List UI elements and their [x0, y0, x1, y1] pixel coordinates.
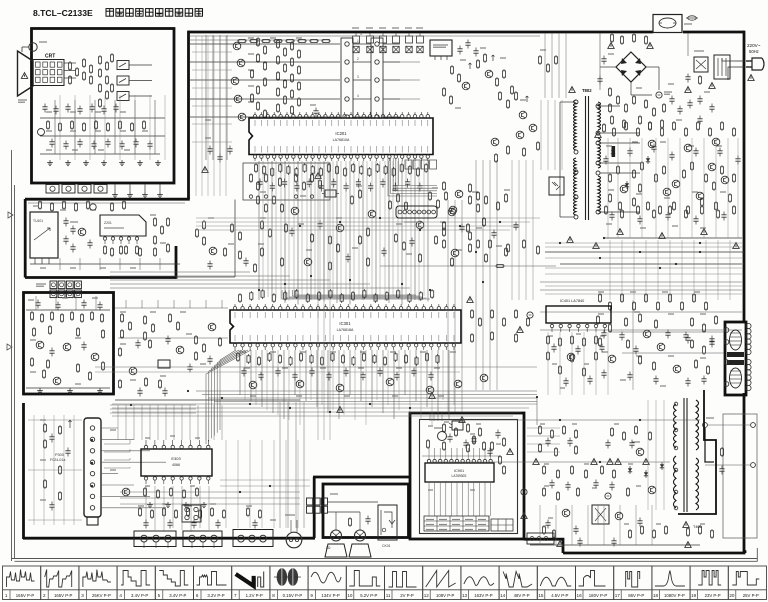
svg-text:165V P-P: 165V P-P	[54, 593, 73, 598]
misc warn triangles	[202, 167, 208, 173]
svg-text:7: 7	[234, 593, 237, 598]
power block step	[524, 539, 563, 553]
svg-text:2: 2	[357, 57, 359, 61]
waveform cell 11	[385, 566, 423, 600]
yoke coil upper	[730, 330, 742, 350]
svg-text:165V P-P: 165V P-P	[16, 593, 35, 598]
IC301 big IC body	[230, 310, 461, 343]
primary labels	[608, 53, 614, 55]
waveform cell 6	[194, 566, 232, 600]
F024 left components	[43, 423, 46, 433]
secondary rectifier diodes	[611, 148, 615, 156]
extra verticals power mid	[609, 240, 611, 300]
focus pack thin box	[723, 414, 757, 538]
tuner thin extension box	[234, 200, 236, 278]
vertical block mesh	[547, 332, 549, 395]
secondary rails	[604, 237, 742, 239]
left mid labels	[120, 311, 126, 313]
svg-text:15: 15	[538, 593, 544, 598]
RGB vertical link wires	[205, 35, 207, 160]
speaker block top spur	[313, 476, 409, 479]
power block ecaps	[521, 489, 527, 495]
IF module pins	[103, 237, 106, 240]
crt block lower resistor row	[46, 120, 49, 130]
long horizontal y367	[95, 366, 537, 368]
svg-text:11: 11	[386, 593, 391, 598]
extra long verticals right center	[511, 160, 513, 300]
flyback transformer T402 outline	[678, 390, 716, 514]
svg-text:IC201: IC201	[335, 131, 347, 136]
speaker connector grid	[307, 498, 313, 505]
power block diodes	[628, 466, 632, 474]
line filter transformer	[714, 55, 730, 79]
tuner agc pot	[90, 204, 96, 210]
regulation transistors lower	[643, 330, 651, 338]
RGB wires to connector	[190, 43, 340, 45]
fuse FS01 on crt frame	[29, 43, 37, 51]
bottom mid mesh	[220, 479, 310, 481]
flyback core	[683, 398, 685, 512]
extra horizontal center bus y218-232	[196, 217, 540, 219]
left mid wires	[115, 307, 228, 309]
speaker block frame	[323, 484, 409, 538]
IC201 pin name ticks	[254, 120, 256, 126]
mid bus corner arcs	[282, 290, 430, 299]
RGB driver emitter resistors	[256, 37, 259, 47]
flyback area verticals	[647, 400, 649, 510]
svg-text:23V P-P: 23V P-P	[705, 593, 721, 598]
wire mesh left of IC301	[117, 405, 119, 440]
svg-text:5: 5	[158, 593, 161, 598]
rgb area labels	[248, 37, 254, 39]
power block resistors	[442, 423, 445, 433]
svg-text:48V P-P: 48V P-P	[514, 593, 530, 598]
svg-text:CRT: CRT	[45, 54, 55, 60]
mains fuse box on top border	[653, 15, 682, 33]
page border bottom double lines	[12, 558, 758, 560]
left mid resistors	[120, 313, 123, 323]
IC301 bottom pins	[233, 344, 236, 347]
yoke coil lower	[730, 368, 742, 388]
audio block gnd	[37, 388, 43, 394]
E303 bottom pins	[144, 477, 147, 480]
power block caps	[447, 434, 452, 443]
speaker Y602 right	[355, 530, 366, 541]
connector P603	[233, 530, 273, 547]
IC301 bus corners left	[220, 350, 236, 430]
tuner area wiring	[28, 202, 185, 204]
svg-text:1: 1	[5, 593, 8, 598]
right of IC301 parts	[470, 309, 473, 319]
tuner area resistors	[38, 200, 41, 210]
svg-text:4.5V P-P: 4.5V P-P	[551, 593, 568, 598]
T802 primary winding	[574, 100, 577, 150]
B3 interior horizontals	[28, 419, 82, 421]
cpu block small parts	[426, 439, 429, 449]
crt block lower cap row	[49, 139, 54, 148]
secondary resistors	[608, 173, 611, 183]
AV area transistors	[455, 190, 463, 198]
speaker block wires	[328, 501, 378, 503]
top mid labels	[460, 59, 466, 61]
delay line DL101	[430, 40, 452, 56]
left lower block edge	[22, 403, 25, 539]
connector P601	[134, 531, 176, 547]
waveform cell 12	[423, 566, 461, 600]
svg-text:Z201: Z201	[104, 221, 112, 225]
flyback primary coil	[674, 404, 677, 448]
rgb area caps	[207, 146, 212, 155]
connector link wires	[353, 43, 371, 45]
svg-text:4066: 4066	[172, 463, 180, 467]
IC401 pins	[550, 324, 553, 327]
wires to yoke	[610, 331, 724, 333]
svg-text:13: 13	[462, 593, 468, 598]
regulation labels lower	[598, 291, 604, 293]
P500 connector on left frame	[182, 505, 201, 522]
degauss connector P901	[286, 532, 302, 548]
F024 wires right	[101, 427, 118, 429]
under-IC201 resistor row	[254, 163, 257, 173]
svg-text:1.2V P-P: 1.2V P-P	[246, 593, 263, 598]
vertical labels	[548, 335, 553, 337]
svg-text:8.TCL–C2133E: 8.TCL–C2133E	[33, 8, 93, 18]
cpu side cells	[491, 519, 513, 531]
svg-text:25V P-P: 25V P-P	[743, 593, 759, 598]
regulation caps lower	[601, 330, 606, 339]
flyback hv cap	[719, 466, 724, 475]
connector column CN201a	[341, 38, 353, 124]
secondary caps	[603, 156, 608, 165]
black bar diode	[612, 146, 616, 157]
secondary transistors	[620, 185, 628, 193]
svg-text:134V P-P: 134V P-P	[321, 593, 340, 598]
cpu labels	[428, 425, 433, 427]
T802 frame wires	[560, 101, 574, 103]
top mid resistors	[450, 65, 453, 75]
yoke connector bars	[727, 352, 744, 357]
yoke box left edge pin circles	[724, 328, 729, 333]
misc junction dots	[258, 289, 260, 291]
main frame left edge	[187, 31, 190, 199]
under-IC201 cap row	[257, 179, 262, 188]
E303 labels	[145, 437, 150, 439]
cpu block inner frame	[420, 420, 518, 534]
tuner block right stub	[175, 246, 178, 279]
waveform cell 2	[41, 566, 79, 600]
power block transistors	[562, 509, 570, 517]
svg-text:5.2V P-P: 5.2V P-P	[360, 593, 377, 598]
IF module E101	[100, 215, 146, 236]
connector P602	[183, 531, 222, 547]
waveform cell 17	[614, 566, 652, 600]
svg-text:T802: T802	[582, 88, 592, 93]
svg-text:0.15V P-P: 0.15V P-P	[283, 593, 303, 598]
svg-text:3.4V P-P: 3.4V P-P	[169, 593, 186, 598]
power vertical wires	[539, 505, 541, 545]
mid region caps	[289, 228, 294, 237]
svg-text:IC901: IC901	[454, 469, 464, 473]
cpu to power wires	[527, 427, 560, 429]
cpu ic901 body	[425, 463, 494, 482]
title chinese glyph blocks	[106, 9, 113, 17]
IC301 top pins	[233, 307, 236, 310]
audio block transistors	[36, 341, 44, 349]
power block warns	[459, 417, 465, 423]
waveform cell 4	[117, 566, 155, 600]
crt heater circle	[38, 129, 45, 136]
svg-text:F024-01a: F024-01a	[50, 458, 65, 462]
waveform cell 19	[690, 566, 728, 600]
extra top-left mesh	[192, 51, 232, 53]
secondary labels	[606, 145, 612, 147]
T802 core	[585, 96, 587, 220]
below-IC301 cap row	[241, 368, 246, 377]
vertical out transistor	[567, 353, 575, 361]
waveform cell 18	[652, 566, 690, 600]
svg-text:25KV P-P: 25KV P-P	[92, 593, 111, 598]
top rail resistor row	[237, 39, 247, 42]
svg-text:17: 17	[615, 593, 621, 598]
left mid caps	[135, 340, 140, 349]
crt block wiring	[40, 117, 165, 119]
svg-text:IC301: IC301	[339, 321, 351, 326]
waveform cell 1	[3, 566, 41, 600]
svg-text:3: 3	[357, 75, 359, 79]
extra verticals under IC201	[262, 161, 264, 296]
delay line caps	[457, 46, 462, 55]
audio block resistors	[30, 311, 33, 321]
focus divider parts	[42, 104, 47, 113]
extra dots everywhere	[299, 225, 301, 227]
svg-text:1: 1	[360, 32, 362, 36]
E303 IC body	[141, 449, 212, 476]
top mid transistors	[462, 82, 470, 90]
svg-text:2V P-P: 2V P-P	[400, 593, 414, 598]
cpu ir receiver	[452, 421, 463, 430]
CRT picture tube symbol	[18, 51, 34, 96]
page border left double lines	[11, 150, 13, 561]
power block labels	[444, 421, 449, 423]
yoke scallop loops right of border	[746, 323, 751, 328]
svg-text:P300: P300	[55, 453, 64, 457]
yoke connector box	[725, 322, 746, 395]
extra power mid circles	[648, 140, 656, 148]
audio block wires	[26, 309, 110, 311]
cpu wires upper	[422, 455, 500, 457]
headphone jack CK01	[378, 505, 397, 540]
left mid crystal	[158, 360, 170, 368]
mid region resistors	[256, 195, 259, 205]
main frame bottom-left edge	[23, 537, 315, 540]
speaker Y601 left	[331, 530, 342, 541]
main frame right edge lower	[744, 393, 746, 552]
svg-text:14: 14	[500, 593, 506, 598]
svg-text:86V P-P: 86V P-P	[628, 593, 644, 598]
audio block caps	[35, 300, 40, 309]
AV label boxes row	[405, 160, 412, 169]
svg-text:IC401 LA7840: IC401 LA7840	[560, 299, 584, 303]
svg-text:8: 8	[272, 593, 275, 598]
waveform cell 10	[346, 566, 384, 600]
flyback secondary coil	[696, 400, 699, 450]
F024 area v+ arrow	[69, 420, 71, 428]
waveform cell 3	[79, 566, 117, 600]
tuner block left edge	[24, 199, 27, 278]
waveform cell 5	[155, 566, 193, 600]
fuse symbol right of box	[688, 16, 697, 20]
right mid horizontal wires	[540, 281, 742, 283]
bus horizontal group y391-403	[196, 390, 537, 392]
primary caps	[601, 56, 606, 65]
E303 below components	[143, 487, 146, 497]
hout transistor V402	[636, 448, 644, 456]
cpu top pins	[427, 459, 430, 462]
waveform cell 16	[576, 566, 614, 600]
primary snubber resistors	[610, 33, 613, 43]
F024 pins	[90, 426, 94, 430]
audio block labels	[28, 299, 34, 301]
wires E303 to F024	[104, 440, 130, 444]
vertical bus bottom center	[279, 402, 281, 528]
power top verticals	[544, 33, 546, 98]
left margin marker triangles	[8, 212, 13, 218]
svg-text:9: 9	[310, 593, 313, 598]
optocoupler PC802	[549, 177, 564, 195]
P102 connector grid below tuner block	[50, 281, 57, 289]
secondary warns	[617, 229, 623, 235]
IC401 body	[546, 306, 611, 323]
extra power rails	[545, 242, 742, 244]
svg-text:50Hz: 50Hz	[749, 49, 759, 54]
below-IC301 vertical wires	[239, 350, 241, 395]
extra crt block mesh	[59, 95, 61, 160]
svg-text:19: 19	[691, 593, 697, 598]
regulation resistors lower	[598, 293, 601, 303]
svg-text:E303: E303	[171, 456, 181, 461]
waveform cell 8	[270, 566, 308, 600]
crt block labels	[46, 111, 52, 113]
wires IC201 area to top connectors	[383, 61, 420, 63]
svg-text:LA76818A: LA76818A	[337, 328, 354, 332]
main filter cap C805	[656, 92, 662, 98]
CRT type label	[18, 99, 27, 101]
long vertical wires center	[447, 200, 449, 412]
svg-text:3.2V P-P: 3.2V P-P	[207, 593, 224, 598]
cpu resonator X901	[438, 432, 447, 441]
svg-text:18: 18	[653, 593, 659, 598]
flyback label	[683, 522, 689, 528]
mains wires	[735, 60, 744, 62]
bottom area labels	[138, 505, 144, 507]
svg-text:220V~: 220V~	[747, 43, 761, 48]
drive transformer T401	[592, 505, 609, 524]
bottom-left riser	[313, 477, 316, 538]
main board frame top edge	[188, 31, 653, 34]
mid region crystal X201	[325, 190, 336, 197]
CRT socket grid	[33, 60, 64, 86]
RGB bias resistors	[98, 55, 101, 65]
ceramic filter row	[353, 36, 360, 43]
bridge rectifier D801	[616, 52, 646, 82]
svg-text:3: 3	[81, 593, 84, 598]
F024 bottom tab	[87, 517, 98, 525]
extra horizontal bus y404-416	[112, 403, 537, 405]
power area mesh verticals	[607, 138, 609, 238]
video feed wires to connector	[129, 64, 152, 66]
tuner can	[30, 212, 58, 258]
svg-text:163V P-P: 163V P-P	[474, 593, 493, 598]
svg-text:4: 4	[119, 593, 122, 598]
B3 labels	[40, 419, 46, 421]
CRT board frame	[32, 29, 175, 184]
waveform cell 7	[232, 566, 270, 600]
video out coupling boxes	[117, 61, 129, 70]
mid vertical bus wires	[258, 161, 260, 300]
T802 joints	[574, 100, 578, 104]
AV area resistors	[442, 181, 445, 191]
degauss components	[685, 74, 690, 83]
wires under E303 to connectors	[145, 486, 147, 528]
svg-text:20: 20	[729, 593, 735, 598]
mid region labels	[260, 191, 266, 193]
svg-text:TU101: TU101	[33, 219, 43, 223]
connector column CN201b	[371, 38, 383, 124]
v+ arrows top mid	[469, 63, 471, 69]
extra long verticals x540-566	[540, 100, 542, 170]
svg-text:8Ω: 8Ω	[326, 546, 331, 550]
waveform cell 13	[461, 566, 499, 600]
page border right corner	[756, 548, 758, 561]
tuner area labels	[33, 205, 39, 207]
primary wires	[600, 66, 616, 68]
crt block ground row	[47, 160, 53, 166]
main top rail wires	[190, 35, 540, 37]
svg-text:10: 10	[347, 593, 353, 598]
RGB driver transistors V5xx	[233, 42, 241, 50]
IC201 top pins	[253, 115, 256, 118]
mid region transistors	[291, 207, 299, 215]
power block bottom edge	[563, 552, 745, 555]
svg-text:4: 4	[357, 94, 359, 98]
bus vertical right x537	[536, 397, 538, 425]
sif transistor Q101	[78, 228, 86, 236]
above-IC301 resistor row	[238, 293, 241, 303]
IF pin resistors	[103, 245, 106, 255]
audio block frame	[24, 293, 114, 395]
horizontal wires above bottom connectors	[120, 491, 300, 493]
below-IC301 resistor row	[236, 352, 239, 362]
E303 left transistor	[122, 488, 130, 496]
main frame right edge upper	[743, 31, 746, 322]
T802 secondary winding	[598, 102, 601, 130]
svg-text:6: 6	[196, 593, 199, 598]
CRT grid resistor cluster	[68, 61, 71, 71]
power block rails	[430, 419, 700, 421]
svg-text:LA76810A: LA76810A	[333, 138, 350, 142]
plug warn	[748, 75, 754, 81]
cpu bottom pins to table	[428, 482, 430, 516]
B3 interior verticals	[33, 415, 35, 525]
below-IC301 labels	[240, 351, 246, 353]
vertical out components	[546, 335, 549, 345]
flyback joints	[674, 402, 678, 406]
svg-text:LA76930S: LA76930S	[452, 474, 467, 478]
long rail y266	[380, 265, 556, 267]
extra verticals below IC301	[244, 350, 246, 400]
below-IC301 transistors	[249, 381, 257, 389]
main frame left jog to tuner block	[25, 198, 190, 201]
